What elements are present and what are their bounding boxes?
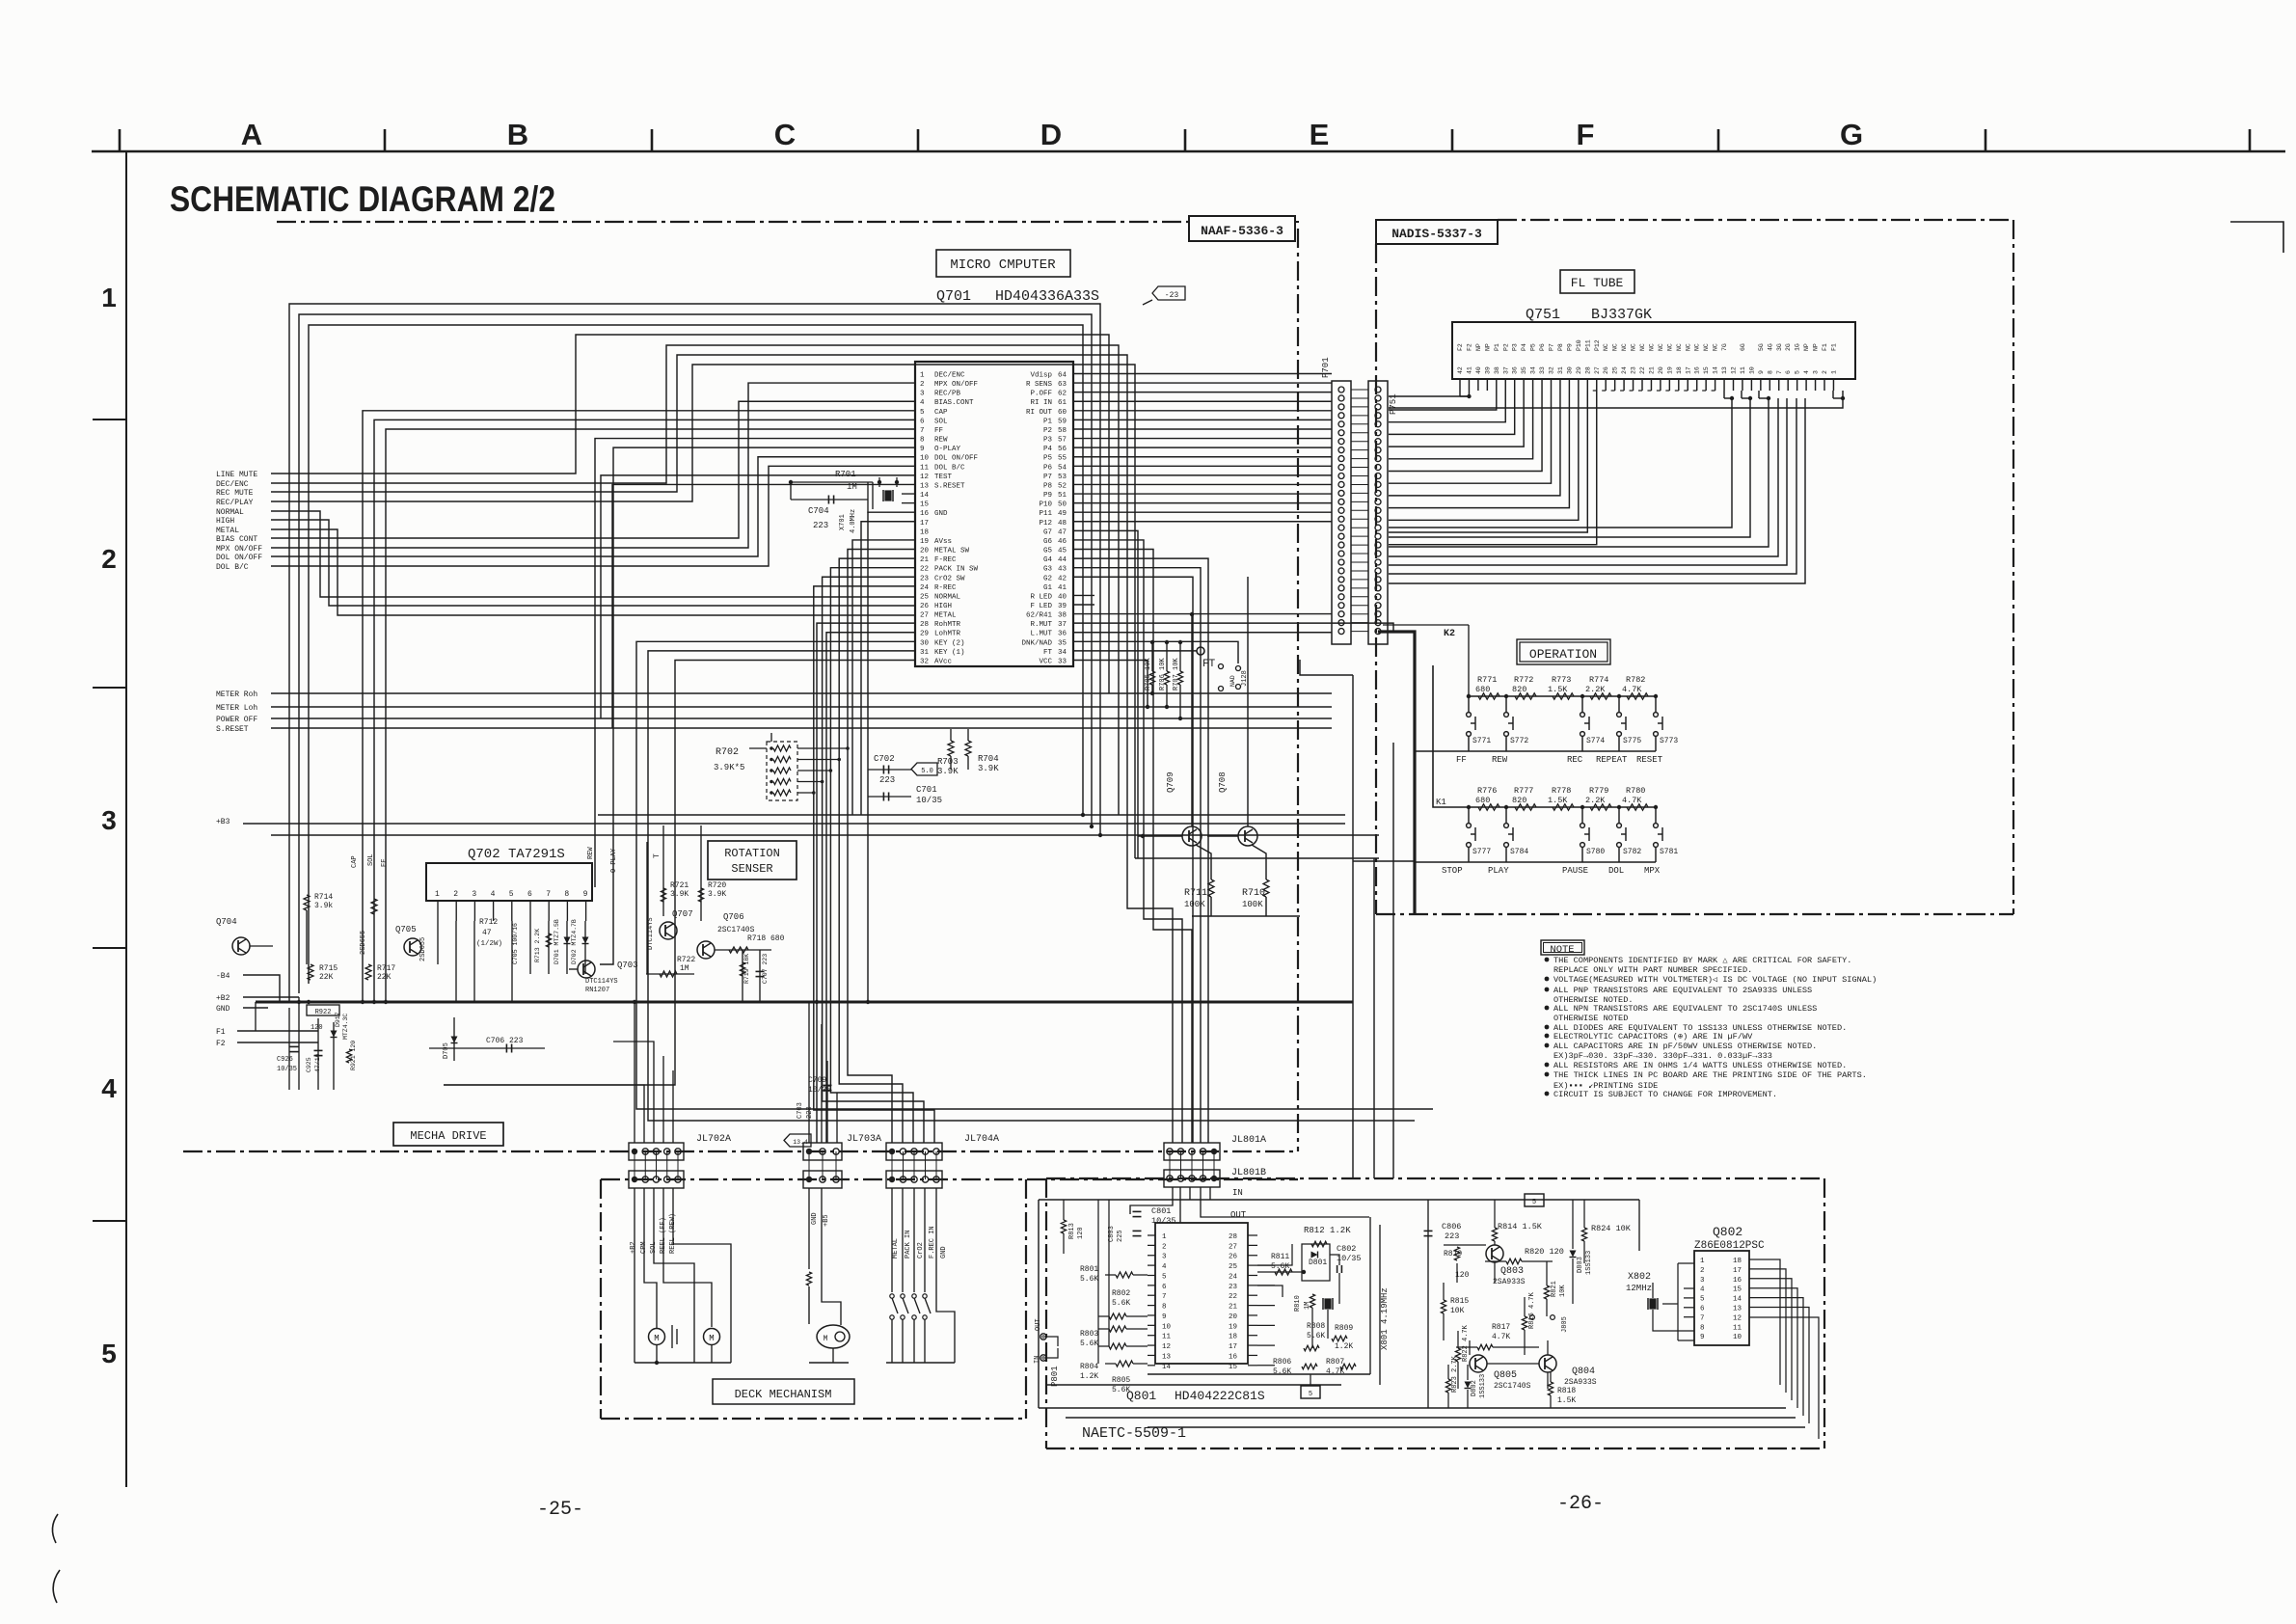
svg-text:47/16: 47/16 — [314, 1053, 321, 1072]
svg-text:Z86E0812PSC: Z86E0812PSC — [1694, 1240, 1765, 1252]
svg-text:G4: G4 — [1043, 556, 1053, 564]
svg-text:R707 10K: R707 10K — [1173, 658, 1180, 690]
svg-text:5.6K: 5.6K — [1080, 1275, 1098, 1284]
svg-text:E: E — [1310, 118, 1330, 151]
svg-text:25: 25 — [920, 593, 930, 601]
svg-text:NOTE: NOTE — [1550, 944, 1574, 956]
svg-text:9: 9 — [920, 446, 925, 453]
svg-text:JL702A: JL702A — [696, 1134, 731, 1145]
svg-text:P8: P8 — [1557, 343, 1564, 351]
svg-text:26: 26 — [1229, 1254, 1238, 1261]
svg-text:R777: R777 — [1514, 786, 1533, 796]
svg-text:39: 39 — [1058, 603, 1067, 610]
svg-text:37: 37 — [1058, 621, 1067, 629]
svg-text:14: 14 — [1713, 366, 1719, 374]
svg-text:BIAS CONT: BIAS CONT — [216, 535, 257, 544]
svg-text:OTHERWISE NOTED: OTHERWISE NOTED — [1553, 1014, 1628, 1023]
svg-text:IN: IN — [1034, 1356, 1041, 1364]
svg-text:S.RESET: S.RESET — [216, 725, 249, 734]
svg-text:33: 33 — [1539, 366, 1546, 374]
svg-text:D705: D705 — [443, 1042, 450, 1059]
svg-text:OUT: OUT — [1035, 1318, 1042, 1331]
svg-text:2: 2 — [1822, 370, 1828, 374]
svg-text:17: 17 — [1685, 366, 1691, 374]
svg-text:X801 4.19MHz: X801 4.19MHz — [1380, 1287, 1390, 1350]
svg-text:34: 34 — [1058, 649, 1067, 657]
svg-text:5.6K: 5.6K — [1271, 1262, 1289, 1271]
svg-text:S773: S773 — [1660, 737, 1678, 745]
svg-text:22: 22 — [1229, 1293, 1237, 1301]
svg-text:S777: S777 — [1472, 848, 1491, 856]
svg-text:C707 223: C707 223 — [762, 954, 769, 984]
svg-text:7: 7 — [546, 890, 551, 899]
svg-text:HIGH: HIGH — [216, 517, 234, 526]
svg-text:DTC114YS: DTC114YS — [585, 978, 618, 986]
svg-text:R921 120: R921 120 — [350, 1041, 357, 1070]
svg-text:C802: C802 — [1337, 1244, 1356, 1254]
svg-text:5.6K: 5.6K — [1112, 1299, 1130, 1308]
svg-text:680: 680 — [1475, 796, 1490, 805]
svg-text:31: 31 — [1557, 366, 1564, 374]
svg-text:P10: P10 — [1039, 501, 1052, 509]
svg-text:31: 31 — [920, 649, 930, 657]
svg-text:R702: R702 — [716, 747, 739, 758]
svg-text:FT: FT — [1043, 649, 1053, 657]
svg-text:Q707: Q707 — [672, 909, 693, 919]
svg-text:SENSER: SENSER — [731, 862, 772, 876]
svg-text:38: 38 — [1494, 366, 1500, 374]
svg-text:4: 4 — [101, 1073, 117, 1103]
svg-text:R822 4.7K: R822 4.7K — [1462, 1324, 1470, 1362]
svg-text:STOP: STOP — [1442, 866, 1463, 876]
svg-text:P2: P2 — [1043, 427, 1052, 435]
svg-text:38: 38 — [1058, 612, 1067, 620]
svg-text:1: 1 — [1830, 370, 1837, 374]
svg-text:3.9k: 3.9k — [314, 902, 333, 910]
svg-text:8: 8 — [1162, 1304, 1167, 1312]
svg-text:19: 19 — [1666, 366, 1673, 374]
svg-text:Q708: Q708 — [1218, 771, 1228, 793]
svg-text:P1: P1 — [1494, 343, 1500, 351]
svg-text:R.MUT: R.MUT — [1030, 621, 1052, 629]
svg-text:REW: REW — [587, 847, 595, 859]
svg-text:5.6K: 5.6K — [1080, 1340, 1098, 1348]
svg-text:P12: P12 — [1039, 520, 1052, 528]
svg-text:12: 12 — [1162, 1343, 1171, 1351]
svg-text:M: M — [654, 1334, 659, 1343]
svg-text:P3: P3 — [1043, 437, 1053, 445]
svg-text:A: A — [241, 118, 262, 151]
svg-text:D701 MTZ7.5B: D701 MTZ7.5B — [554, 919, 560, 964]
svg-text:R817: R817 — [1492, 1323, 1510, 1332]
svg-text:RN1207: RN1207 — [585, 987, 609, 994]
svg-text:15: 15 — [920, 501, 930, 509]
svg-text:63: 63 — [1058, 381, 1067, 389]
svg-text:1.5K: 1.5K — [1557, 1396, 1576, 1405]
svg-text:28: 28 — [920, 621, 929, 629]
svg-text:17: 17 — [1733, 1267, 1742, 1275]
svg-text:18: 18 — [1676, 366, 1683, 374]
svg-text:D702 MTZ4.7B: D702 MTZ4.7B — [571, 919, 578, 964]
svg-text:NC: NC — [1639, 343, 1646, 351]
svg-text:4.7K: 4.7K — [1622, 796, 1642, 805]
svg-text:60: 60 — [1058, 409, 1067, 417]
svg-text:JL704A: JL704A — [964, 1134, 999, 1145]
svg-text:K1: K1 — [1436, 798, 1446, 807]
svg-text:REC MUTE: REC MUTE — [216, 489, 254, 498]
svg-text:R771: R771 — [1477, 675, 1497, 685]
svg-text:2.2K: 2.2K — [1585, 796, 1606, 805]
svg-text:10: 10 — [1733, 1334, 1742, 1341]
svg-text:METER Loh: METER Loh — [216, 704, 257, 713]
svg-text:ELECTROLYTIC CAPACITORS (⊕) A: ELECTROLYTIC CAPACITORS (⊕) ARE IN µF/WV — [1553, 1032, 1753, 1042]
svg-text:1.5K: 1.5K — [1548, 685, 1568, 694]
svg-text:4: 4 — [1162, 1263, 1167, 1271]
svg-text:4: 4 — [1700, 1286, 1705, 1294]
svg-text:R779: R779 — [1589, 786, 1608, 796]
svg-text:G7: G7 — [1043, 528, 1052, 536]
svg-text:47: 47 — [482, 929, 492, 937]
svg-text:14: 14 — [920, 492, 930, 500]
svg-text:EX)3pF→030. 33pF→330. 330pF→33: EX)3pF→030. 33pF→330. 330pF→331. 0.033µF… — [1553, 1051, 1772, 1061]
svg-text:19: 19 — [920, 538, 929, 546]
svg-text:+B2: +B2 — [630, 1241, 637, 1254]
svg-text:4.7K: 4.7K — [1492, 1333, 1510, 1341]
svg-text:MPX ON/OFF: MPX ON/OFF — [216, 545, 262, 554]
svg-text:GND: GND — [934, 510, 948, 518]
svg-text:100K: 100K — [1242, 900, 1263, 909]
svg-text:2G: 2G — [1785, 343, 1792, 351]
svg-text:DEC/ENC: DEC/ENC — [934, 372, 965, 380]
svg-text:R820 120: R820 120 — [1525, 1247, 1564, 1257]
svg-text:R801: R801 — [1080, 1265, 1098, 1274]
svg-text:223: 223 — [813, 521, 828, 530]
svg-text:223: 223 — [1445, 1232, 1459, 1241]
svg-text:37: 37 — [1502, 366, 1509, 374]
svg-text:-25-: -25- — [537, 1499, 583, 1521]
svg-text:3.9K*5: 3.9K*5 — [714, 763, 744, 772]
svg-text:D802: D802 — [1471, 1380, 1478, 1396]
svg-text:R LED: R LED — [1030, 593, 1052, 601]
svg-text:10: 10 — [1162, 1323, 1172, 1331]
svg-text:23: 23 — [1229, 1284, 1238, 1291]
svg-text:5: 5 — [509, 890, 514, 899]
svg-text:57: 57 — [1058, 437, 1067, 445]
svg-text:5: 5 — [101, 1339, 117, 1368]
svg-text:S.RESET: S.RESET — [934, 482, 965, 490]
svg-text:F1: F1 — [1830, 343, 1837, 351]
svg-text:Vdisp: Vdisp — [1030, 372, 1052, 380]
svg-text:S784: S784 — [1510, 848, 1528, 856]
svg-text:F1: F1 — [1822, 343, 1828, 351]
svg-text:Q706: Q706 — [723, 912, 744, 922]
svg-text:2SD655: 2SD655 — [360, 931, 367, 955]
svg-text:MPX: MPX — [1644, 866, 1661, 876]
svg-text:G1: G1 — [1043, 584, 1053, 592]
svg-text:1.2K: 1.2K — [1335, 1342, 1353, 1351]
svg-text:10/35: 10/35 — [1337, 1254, 1362, 1263]
svg-text:14: 14 — [1162, 1364, 1172, 1371]
svg-text:64: 64 — [1058, 372, 1067, 380]
svg-text:30: 30 — [920, 639, 930, 647]
svg-text:R710: R710 — [1242, 888, 1265, 899]
svg-text:G3: G3 — [1043, 566, 1053, 574]
svg-text:NC: NC — [1603, 343, 1609, 351]
svg-text:R778: R778 — [1552, 786, 1571, 796]
svg-text:25: 25 — [1612, 366, 1619, 374]
svg-text:10: 10 — [920, 455, 930, 463]
svg-text:ALL PNP TRANSISTORS ARE EQUIV: ALL PNP TRANSISTORS ARE EQUIVALENT TO 2S… — [1553, 986, 1812, 995]
svg-text:DNK/NAD: DNK/NAD — [1021, 639, 1052, 647]
svg-text:16: 16 — [1694, 366, 1701, 374]
svg-text:16: 16 — [920, 510, 930, 518]
svg-text:NC: NC — [1666, 343, 1673, 351]
svg-text:S780: S780 — [1586, 848, 1605, 856]
svg-text:2.2K: 2.2K — [1585, 685, 1606, 694]
svg-text:R809: R809 — [1335, 1324, 1353, 1333]
svg-text:C702: C702 — [874, 754, 895, 764]
svg-text:17: 17 — [1229, 1343, 1237, 1351]
svg-text:R812 1.2K: R812 1.2K — [1304, 1226, 1351, 1235]
svg-text:33: 33 — [1058, 658, 1067, 665]
svg-text:NORMAL: NORMAL — [934, 593, 961, 601]
svg-text:5.6K: 5.6K — [1112, 1386, 1130, 1394]
svg-text:2SA933S: 2SA933S — [1493, 1278, 1526, 1286]
svg-text:3: 3 — [472, 890, 476, 899]
svg-text:C701: C701 — [916, 785, 937, 795]
svg-text:R808: R808 — [1307, 1322, 1325, 1331]
svg-text:49: 49 — [1058, 510, 1067, 518]
svg-text:3: 3 — [1700, 1277, 1705, 1285]
svg-text:7G: 7G — [1721, 343, 1728, 351]
svg-text:F2: F2 — [216, 1040, 226, 1048]
svg-text:11: 11 — [1740, 366, 1746, 374]
svg-text:M: M — [824, 1335, 828, 1343]
svg-text:FT: FT — [1202, 659, 1216, 670]
svg-text:S782: S782 — [1623, 848, 1641, 856]
svg-text:DOL ON/OFF: DOL ON/OFF — [934, 455, 978, 463]
svg-text:12: 12 — [1733, 1314, 1742, 1322]
svg-text:42: 42 — [1457, 366, 1464, 374]
svg-text:R-REC: R-REC — [934, 584, 957, 592]
svg-text:SCHEMATIC DIAGRAM 2/2: SCHEMATIC DIAGRAM 2/2 — [170, 179, 555, 219]
svg-text:R772: R772 — [1514, 675, 1533, 685]
svg-text:S774: S774 — [1586, 737, 1605, 745]
svg-text:13: 13 — [1721, 366, 1728, 374]
svg-text:5: 5 — [1532, 1199, 1536, 1206]
svg-text:NC: NC — [1676, 343, 1683, 351]
svg-text:D803: D803 — [1577, 1257, 1584, 1273]
svg-text:C: C — [774, 118, 796, 151]
svg-text:S781: S781 — [1660, 848, 1678, 856]
svg-text:LINE MUTE: LINE MUTE — [216, 471, 257, 479]
svg-text:8: 8 — [564, 890, 569, 899]
svg-text:1M: 1M — [680, 964, 689, 973]
svg-text:R722: R722 — [677, 956, 695, 964]
svg-text:OUT: OUT — [1230, 1210, 1247, 1220]
svg-text:16: 16 — [1229, 1353, 1238, 1361]
svg-text:REC/PLAY: REC/PLAY — [216, 499, 254, 507]
svg-text:1SS133: 1SS133 — [1585, 1251, 1593, 1275]
svg-text:22: 22 — [1639, 366, 1646, 374]
svg-text:9: 9 — [1700, 1334, 1705, 1341]
svg-text:HIGH: HIGH — [934, 603, 952, 610]
svg-text:R701: R701 — [835, 470, 856, 479]
svg-text:6G: 6G — [1740, 343, 1746, 351]
svg-text:KEY (1): KEY (1) — [934, 649, 965, 657]
svg-text:58: 58 — [1058, 427, 1067, 435]
svg-text:5: 5 — [1162, 1273, 1167, 1281]
svg-text:120: 120 — [311, 1024, 323, 1032]
svg-text:R721: R721 — [670, 881, 689, 890]
svg-text:5.0: 5.0 — [921, 768, 933, 775]
svg-text:27: 27 — [920, 612, 929, 620]
svg-text:-23: -23 — [1165, 291, 1179, 300]
svg-text:50: 50 — [1058, 501, 1067, 509]
svg-text:3: 3 — [1162, 1254, 1167, 1261]
svg-text:Q705: Q705 — [395, 925, 417, 934]
svg-text:10/35: 10/35 — [916, 796, 942, 805]
svg-text:O-PLAY: O-PLAY — [934, 446, 961, 453]
svg-text:100K: 100K — [1184, 900, 1205, 909]
svg-text:NC: NC — [1631, 343, 1637, 351]
svg-text:Q801: Q801 — [1126, 1389, 1156, 1403]
svg-text:3: 3 — [920, 391, 925, 398]
svg-text:P4: P4 — [1043, 446, 1053, 453]
svg-text:39: 39 — [1484, 366, 1491, 374]
svg-text:X802: X802 — [1628, 1272, 1651, 1283]
svg-text:1: 1 — [1700, 1258, 1705, 1265]
svg-text:36: 36 — [1512, 366, 1519, 374]
svg-text:RI IN: RI IN — [1030, 399, 1052, 407]
svg-text:Q701: Q701 — [936, 288, 971, 305]
svg-text:NC: NC — [1612, 343, 1619, 351]
svg-text:2: 2 — [453, 890, 458, 899]
svg-text:20: 20 — [1229, 1313, 1238, 1321]
svg-text:7: 7 — [920, 427, 925, 435]
svg-text:8: 8 — [920, 437, 925, 445]
svg-text:R713 2.2K: R713 2.2K — [534, 929, 541, 962]
svg-text:K2: K2 — [1444, 629, 1455, 639]
svg-text:8: 8 — [1767, 370, 1773, 374]
svg-text:1SS133: 1SS133 — [1479, 1374, 1487, 1398]
svg-text:3.9K: 3.9K — [708, 890, 726, 899]
svg-text:61: 61 — [1058, 399, 1067, 407]
svg-text:1.5K: 1.5K — [1548, 796, 1568, 805]
svg-text:28: 28 — [1584, 366, 1591, 374]
svg-text:6: 6 — [527, 890, 532, 899]
svg-text:13: 13 — [920, 482, 930, 490]
svg-text:R922: R922 — [315, 1009, 332, 1016]
svg-text:SOL: SOL — [934, 418, 948, 425]
svg-text:23: 23 — [1631, 366, 1637, 374]
svg-text:R803: R803 — [1080, 1330, 1098, 1339]
svg-text:6: 6 — [1785, 370, 1792, 374]
svg-text:40: 40 — [1475, 366, 1482, 374]
svg-text:FF: FF — [1456, 755, 1467, 765]
svg-text:R773: R773 — [1552, 675, 1571, 685]
svg-text:LohMTR: LohMTR — [934, 631, 961, 638]
svg-text:J805: J805 — [1561, 1316, 1569, 1333]
svg-text:X701: X701 — [839, 514, 847, 530]
svg-text:1: 1 — [1162, 1233, 1167, 1241]
svg-text:12: 12 — [1731, 366, 1738, 374]
svg-text:VCC: VCC — [1039, 658, 1052, 665]
svg-text:R821: R821 — [1551, 1281, 1558, 1297]
svg-text:R711: R711 — [1184, 888, 1207, 899]
svg-text:16: 16 — [1733, 1277, 1742, 1285]
svg-text:NC: NC — [1713, 343, 1719, 351]
svg-text:15: 15 — [1703, 366, 1710, 374]
svg-text:680: 680 — [1475, 685, 1490, 694]
svg-text:R720: R720 — [708, 881, 726, 890]
svg-text:8: 8 — [1700, 1324, 1705, 1332]
svg-text:43: 43 — [1058, 566, 1067, 574]
svg-text:2SC1740S: 2SC1740S — [1494, 1382, 1531, 1391]
svg-text:36: 36 — [1058, 631, 1067, 638]
svg-text:820: 820 — [1512, 796, 1526, 805]
svg-text:2SC1740S: 2SC1740S — [717, 926, 755, 934]
svg-text:10/35: 10/35 — [277, 1066, 297, 1073]
svg-text:41: 41 — [1058, 584, 1067, 592]
svg-text:FF: FF — [381, 859, 389, 867]
svg-text:Q805: Q805 — [1494, 1370, 1517, 1381]
svg-text:P10: P10 — [1576, 339, 1582, 351]
svg-text:NAD: NAD — [1229, 675, 1236, 687]
svg-text:CrO2 SW: CrO2 SW — [934, 575, 965, 582]
svg-text:26: 26 — [920, 603, 930, 610]
svg-text:R718 680: R718 680 — [747, 934, 785, 943]
svg-text:MPX ON/OFF: MPX ON/OFF — [934, 381, 978, 389]
svg-text:AVcc: AVcc — [934, 658, 952, 665]
svg-text:Q803: Q803 — [1500, 1266, 1524, 1277]
svg-text:AVss: AVss — [934, 538, 952, 546]
svg-text:NAAF-5336-3: NAAF-5336-3 — [1201, 224, 1283, 238]
svg-text:PAUSE: PAUSE — [1562, 866, 1588, 876]
svg-text:DOL: DOL — [1608, 866, 1624, 876]
svg-text:NP: NP — [1475, 343, 1482, 351]
svg-text:4.7K: 4.7K — [1622, 685, 1642, 694]
svg-text:32: 32 — [1549, 366, 1555, 374]
svg-text:24: 24 — [1621, 366, 1628, 374]
svg-text:56: 56 — [1058, 446, 1067, 453]
svg-text:NP: NP — [1803, 343, 1810, 351]
svg-text:6: 6 — [1700, 1306, 1705, 1313]
svg-text:3.9K: 3.9K — [937, 767, 959, 776]
svg-text:12MHz: 12MHz — [1626, 1284, 1652, 1293]
svg-text:METAL: METAL — [216, 527, 239, 535]
svg-text:5: 5 — [1309, 1391, 1312, 1398]
svg-text:B: B — [507, 118, 528, 151]
svg-text:12: 12 — [920, 474, 929, 481]
svg-text:REW: REW — [934, 437, 948, 445]
svg-text:4: 4 — [1803, 370, 1810, 374]
svg-text:M: M — [709, 1334, 714, 1343]
svg-text:R818: R818 — [1557, 1387, 1576, 1395]
svg-text:HD404336A33S: HD404336A33S — [995, 288, 1099, 305]
svg-text:METAL SW: METAL SW — [934, 548, 970, 555]
svg-text:23: 23 — [920, 575, 930, 582]
svg-text:R813: R813 — [1068, 1223, 1076, 1239]
svg-text:(1/2W): (1/2W) — [476, 940, 502, 948]
svg-text:5G: 5G — [1758, 343, 1765, 351]
svg-text:REPEAT: REPEAT — [1596, 755, 1628, 765]
svg-text:30: 30 — [1566, 366, 1573, 374]
svg-text:22K: 22K — [319, 973, 334, 982]
svg-text:4: 4 — [920, 399, 925, 407]
svg-text:P3: P3 — [1512, 343, 1519, 351]
svg-text:C703: C703 — [797, 1102, 804, 1119]
